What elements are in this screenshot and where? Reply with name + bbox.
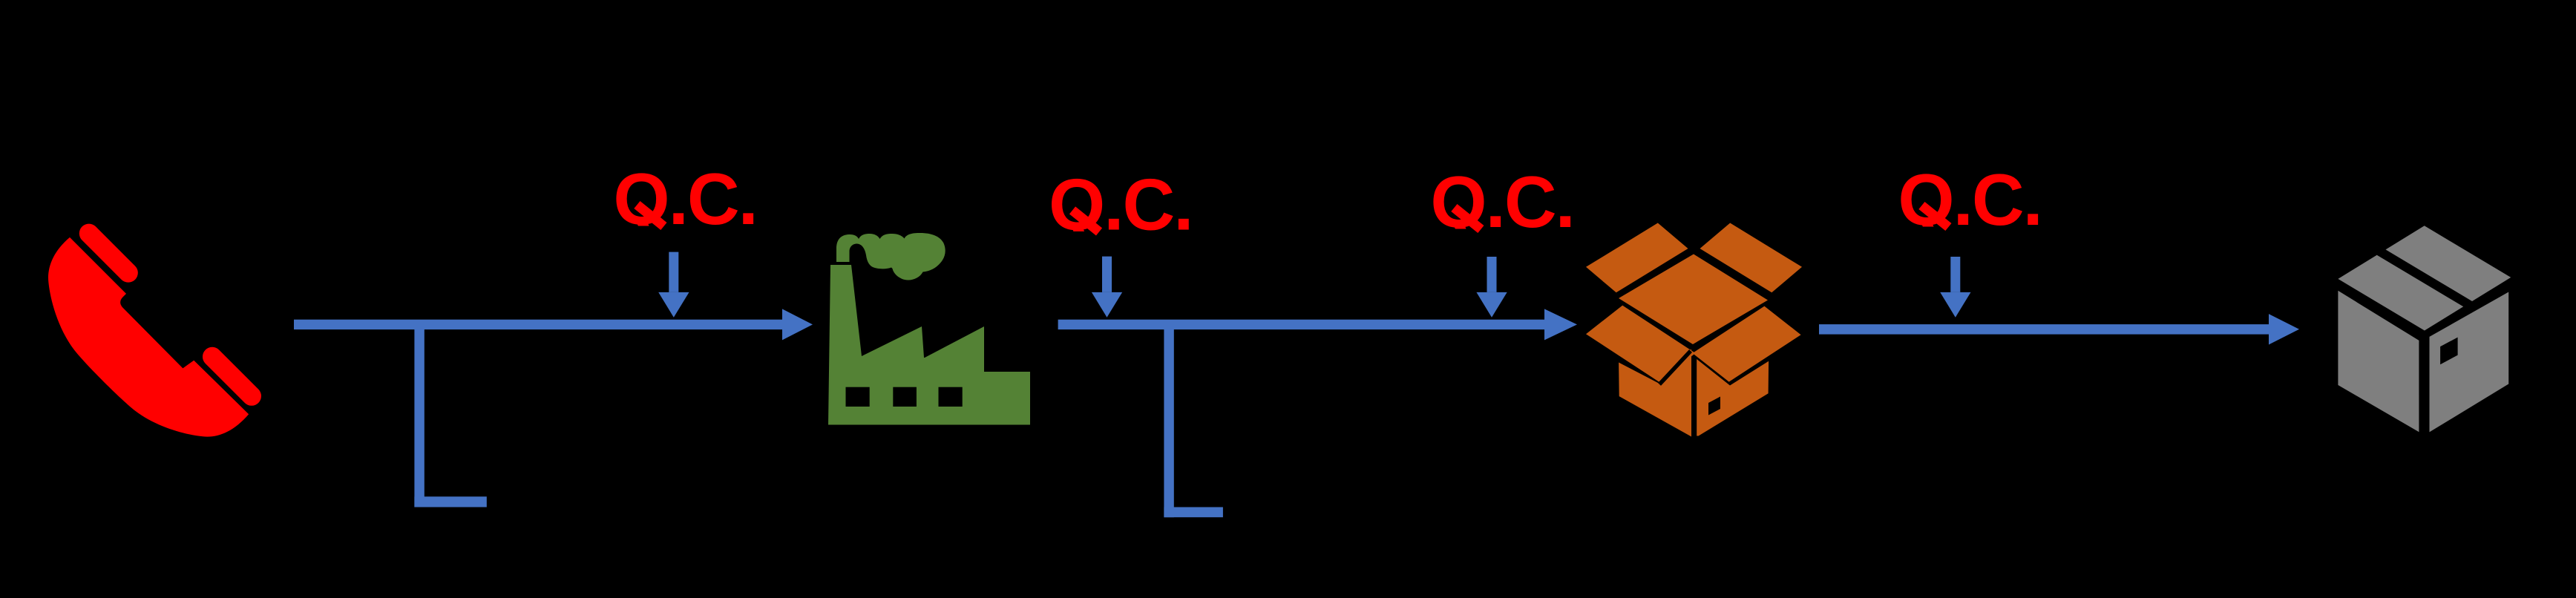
svg-text:Q.C.: Q.C.	[1049, 163, 1192, 245]
svg-text:Q.C.: Q.C.	[1430, 161, 1573, 243]
svg-text:Q.C.: Q.C.	[613, 158, 756, 240]
svg-text:Q.C.: Q.C.	[1898, 159, 2041, 240]
